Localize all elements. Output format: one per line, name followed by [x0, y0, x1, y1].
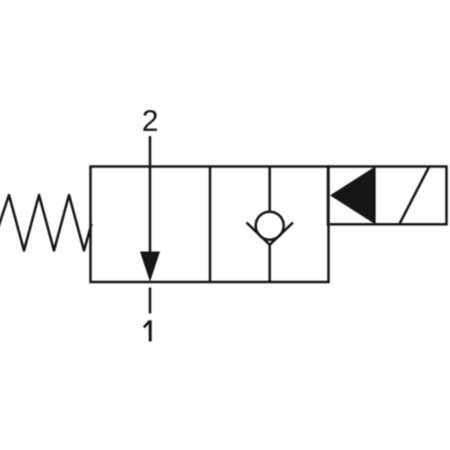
label port 1: [144, 320, 150, 341]
port 2 line (top): [149, 136, 152, 254]
valve body outline: [91, 167, 329, 283]
solenoid box: [328, 167, 447, 225]
check valve seat (V): [247, 223, 294, 245]
flow arrow head: [140, 252, 160, 282]
spring (return spring, left side): [0, 195, 92, 251]
check valve ball (circle): [256, 212, 284, 240]
check valve inlet line: [268, 167, 271, 212]
check valve outlet line: [268, 245, 271, 282]
label port 2: [143, 110, 157, 131]
solenoid coil diagonal: [399, 167, 429, 225]
solenoid triangle (armature): [330, 167, 374, 224]
solenoid divider: [373, 167, 376, 225]
port 1 line (bottom): [149, 288, 152, 314]
valve position divider: [209, 167, 212, 283]
